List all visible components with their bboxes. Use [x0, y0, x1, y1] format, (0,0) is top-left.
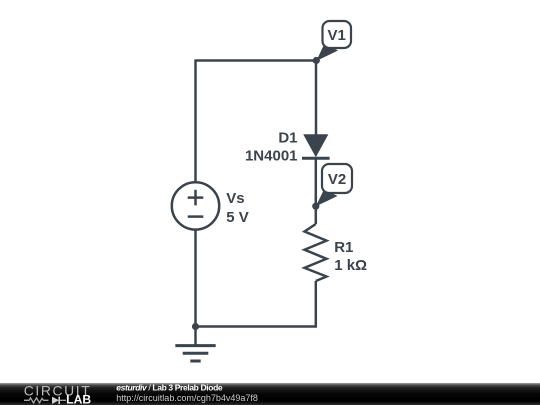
- svg-text:1 kΩ: 1 kΩ: [334, 257, 367, 274]
- node junction dot bottom-left (ground junction): [192, 323, 199, 330]
- svg-text:esturdiv / Lab 3 Prelab Diode: esturdiv / Lab 3 Prelab Diode: [116, 383, 223, 393]
- wire top horizontal: [196, 59, 317, 62]
- svg-text:http://circuitlab.com/cgh7b4v4: http://circuitlab.com/cgh7b4v49a7f8: [116, 393, 258, 403]
- wire resistor bottom to corner: [315, 281, 318, 327]
- wire diode cathode to resistor top: [315, 158, 318, 224]
- svg-text:V1: V1: [328, 27, 346, 44]
- svg-text:LAB: LAB: [66, 394, 91, 405]
- resistor R1 zigzag: [305, 224, 327, 281]
- node label balloon V2 tail: [316, 190, 338, 207]
- svg-text:Vs: Vs: [226, 190, 244, 207]
- svg-text:5 V: 5 V: [226, 209, 249, 226]
- wire left upper (top corner to source): [194, 60, 197, 183]
- voltage source plus sign: [188, 190, 204, 206]
- wire bottom horizontal: [196, 325, 318, 328]
- voltage source Vs circle: [172, 182, 219, 229]
- svg-text:1N4001: 1N4001: [245, 148, 298, 165]
- node label balloon V1 box: [323, 21, 352, 48]
- diode D1 triangle (anode): [303, 134, 328, 157]
- node junction dot middle (V2 node): [312, 203, 319, 210]
- diode D1 cathode bar: [302, 157, 330, 160]
- svg-text:D1: D1: [278, 130, 297, 147]
- svg-text:R1: R1: [334, 239, 353, 256]
- node label balloon V1 tail: [316, 44, 338, 62]
- node label balloon V2 box: [322, 164, 352, 193]
- wire right upper (node V1 to diode anode): [315, 61, 318, 136]
- svg-text:V2: V2: [328, 171, 346, 188]
- logo resistor zigzag: [24, 398, 49, 403]
- node junction dot top (V1 node): [313, 57, 320, 64]
- wire left lower (source to bottom corner): [194, 230, 197, 327]
- logo diode symbol: [52, 397, 59, 404]
- ground symbol: [175, 327, 215, 362]
- voltage source minus sign: [188, 215, 204, 218]
